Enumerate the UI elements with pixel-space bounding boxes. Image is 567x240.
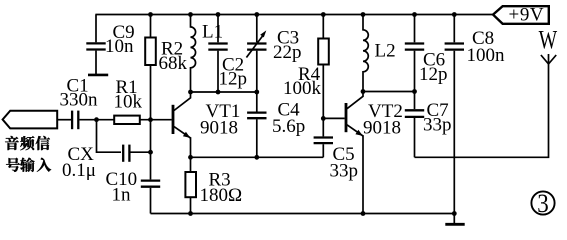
wire CX to R2 column [131, 151, 151, 153]
node C2 bottom [216, 90, 221, 95]
svg-text:9018: 9018 [363, 118, 401, 139]
node emitter/R3 [188, 155, 193, 160]
svg-text:W: W [539, 25, 558, 54]
capacitor C7 [405, 92, 452, 158]
capacitor C5 [314, 118, 358, 181]
capacitor C1 [60, 76, 99, 130]
node C6/C7 [412, 89, 417, 94]
transistor VT2 [345, 92, 403, 214]
input connector 音频信号输入 [3, 111, 58, 129]
svg-text:L2: L2 [375, 41, 396, 62]
variable capacitor C3 [246, 15, 301, 93]
svg-text:33p: 33p [330, 161, 359, 182]
ground (below C9) [88, 74, 108, 77]
resistor R4 [283, 15, 329, 119]
node C4 bottom [254, 155, 259, 160]
wire antenna feed [415, 64, 549, 157]
resistor R1 [114, 77, 143, 124]
svg-text:3: 3 [537, 189, 549, 218]
figure number 3 [531, 189, 554, 218]
capacitor CX [62, 144, 129, 181]
node C8 top on rail [452, 12, 457, 17]
wire R4 node to VT2 base [323, 117, 344, 119]
node C6 top on rail [412, 12, 417, 17]
capacitor C2 [208, 15, 247, 93]
svg-text:68k: 68k [159, 53, 188, 74]
wire emitter row [191, 156, 324, 158]
svg-text:180Ω: 180Ω [200, 185, 243, 206]
label 音频信号输入 [5, 136, 51, 172]
capacitor C4 [247, 92, 305, 157]
node C2 top on rail [216, 12, 221, 17]
svg-text:12p: 12p [219, 69, 248, 90]
node VT1 base node [148, 117, 153, 122]
node R4/C5/VT2 base [321, 116, 326, 121]
svg-text:22p: 22p [273, 42, 302, 63]
inductor L2 [363, 15, 396, 92]
node L1 top on rail [188, 12, 193, 17]
capacitor C6 [405, 15, 448, 92]
inductor L1 [191, 15, 224, 93]
svg-text:10n: 10n [105, 36, 134, 57]
ground [445, 214, 464, 225]
wire CX riser [97, 120, 122, 153]
svg-text:0.1μ: 0.1μ [62, 160, 96, 181]
svg-text:10k: 10k [114, 92, 143, 113]
wire +9V rail [95, 14, 493, 16]
svg-text:5.6p: 5.6p [272, 116, 305, 137]
capacitor C10 [106, 169, 161, 214]
node collector/L1 [188, 90, 193, 95]
wire ground rail [151, 213, 455, 215]
svg-text:100k: 100k [283, 78, 322, 99]
transistor VT1 [172, 92, 241, 157]
node VT2 emitter bottom [361, 211, 366, 216]
wire input to C1 [57, 119, 71, 121]
node R3 bottom [188, 211, 193, 216]
svg-text:330n: 330n [60, 90, 99, 111]
svg-text:12p: 12p [419, 64, 448, 85]
node R4 top on rail [321, 12, 326, 17]
wire R1 to base node [140, 119, 172, 121]
node CX junction [148, 150, 153, 155]
resistor R2 [145, 15, 187, 120]
node C3 top on rail [254, 12, 259, 17]
svg-text:1n: 1n [112, 185, 132, 206]
wire base node down to C10 [150, 120, 152, 180]
capacitor C9 [86, 15, 134, 75]
node L2 top on rail [361, 12, 366, 17]
svg-text:33p: 33p [423, 115, 452, 136]
svg-text:100n: 100n [467, 45, 506, 66]
node C3/C4 [254, 90, 259, 95]
resistor R3 [185, 157, 242, 213]
node R2 top on rail [148, 12, 153, 17]
wire C1 to R1 [79, 119, 114, 121]
capacitor C8 [445, 15, 505, 214]
antenna W [539, 25, 558, 64]
svg-text:9018: 9018 [200, 118, 238, 139]
node L2/collector [361, 89, 366, 94]
svg-text:L1: L1 [202, 22, 223, 43]
node C1/CX junction [94, 117, 99, 122]
svg-text:+9V: +9V [509, 5, 545, 26]
node C8 bottom / ground [452, 211, 457, 216]
wire VT1 collector row [191, 91, 257, 93]
wire VT2 collector row [363, 91, 415, 93]
power connector +9V [493, 5, 549, 26]
